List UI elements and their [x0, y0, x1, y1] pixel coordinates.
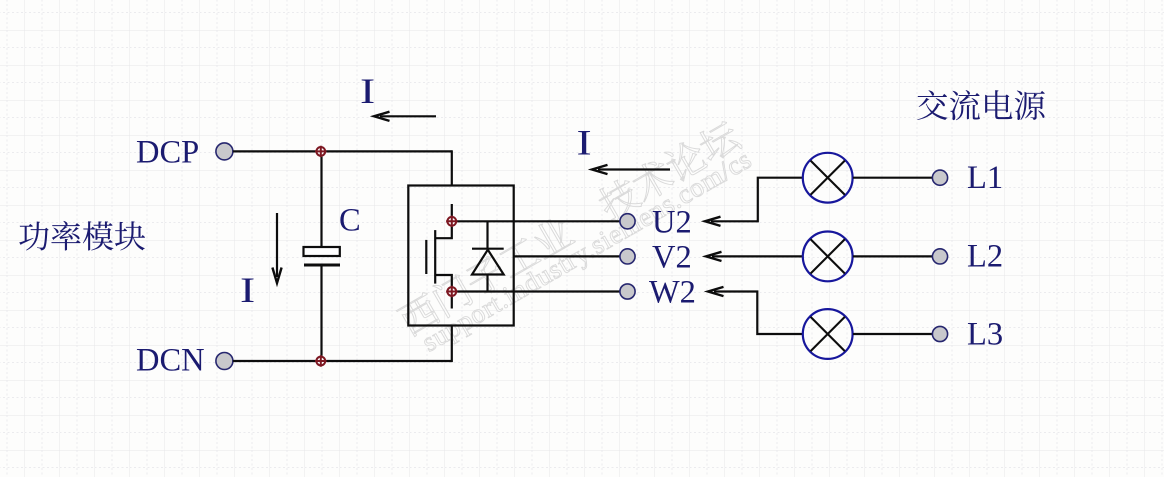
wire capacitor top lead [320, 151, 322, 247]
svg-text:DCN: DCN [136, 343, 205, 379]
terminal W2 [620, 284, 635, 299]
wire DCP drop to module [451, 150, 453, 185]
wire U2 to lamp L1 [711, 178, 802, 222]
wire emitter node to W2 [452, 290, 620, 292]
terminal DCN [216, 353, 233, 370]
svg-text:I: I [577, 122, 592, 163]
wire V2 to lamp L2 [712, 255, 802, 257]
junction top (collector node) [446, 216, 457, 227]
svg-text:I: I [240, 269, 255, 310]
svg-text:L2: L2 [967, 238, 1003, 274]
diode D1 triangle [472, 250, 504, 275]
diode D1 cathode bar [472, 248, 504, 250]
svg-text:C: C [339, 203, 361, 239]
IGBT Q1 source lead [435, 275, 452, 292]
IGBT Q1 gate bar [425, 240, 427, 274]
terminal U2 [620, 214, 635, 229]
terminal L2 [932, 249, 947, 264]
IGBT Q1 channel bar [434, 230, 436, 284]
power module box U1 [408, 186, 513, 326]
junction on DCN rail [315, 356, 326, 367]
wire capacitor bottom lead [320, 265, 322, 361]
wire DCP rail [233, 150, 452, 152]
wire module bottom lead [451, 326, 453, 363]
wire lamp2 to L2 [853, 255, 932, 257]
lamp 2 [803, 232, 853, 282]
junction on DCP rail [315, 146, 326, 157]
lamp 3 [803, 309, 853, 359]
watermark [395, 117, 757, 362]
terminal L1 [932, 170, 947, 185]
diode D1 anode lead [486, 275, 488, 292]
svg-text:W2: W2 [649, 275, 696, 311]
svg-text:L1: L1 [967, 160, 1003, 196]
capacitor C bottom plate [304, 264, 340, 267]
wire collector stub [451, 204, 453, 221]
terminal DCP [216, 143, 233, 160]
svg-text:U2: U2 [652, 205, 692, 241]
wire V2 output [514, 255, 620, 257]
junction bottom (emitter node) [446, 286, 457, 297]
wire lamp1 to L1 [853, 177, 932, 179]
terminal V2 [620, 249, 635, 264]
label 交流电源 (AC supply) [917, 90, 1045, 120]
wire W2 to lamp L3 [714, 292, 802, 335]
wire lamp3 to L3 [853, 333, 932, 335]
diode D1 cathode lead [486, 221, 488, 248]
wire collector node to U2 [452, 220, 620, 222]
terminal L3 [932, 326, 947, 341]
arrow I middle [598, 168, 670, 170]
IGBT Q1 drain lead [435, 221, 452, 238]
svg-text:I: I [360, 70, 375, 111]
capacitor C top plate [304, 247, 340, 256]
arrow I top-left [380, 115, 436, 117]
svg-text:L3: L3 [967, 317, 1003, 353]
svg-text:DCP: DCP [136, 135, 199, 171]
lamp 1 [803, 153, 853, 203]
label 功率模块 (power module) [19, 221, 145, 251]
arrow I down near capacitor [276, 213, 278, 277]
wire emitter stub [451, 292, 453, 309]
wire DCN rail [233, 360, 452, 362]
svg-text:V2: V2 [652, 240, 692, 276]
